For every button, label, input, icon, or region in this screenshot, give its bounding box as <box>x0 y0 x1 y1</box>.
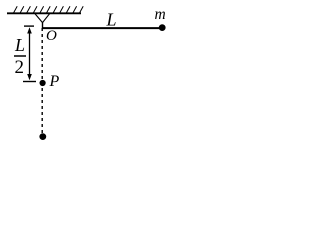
svg-text:2: 2 <box>15 57 25 78</box>
svg-text:O: O <box>46 28 57 44</box>
svg-text:m: m <box>155 6 166 23</box>
svg-text:L: L <box>14 35 25 55</box>
svg-text:L: L <box>106 10 117 30</box>
svg-text:P: P <box>49 73 60 90</box>
